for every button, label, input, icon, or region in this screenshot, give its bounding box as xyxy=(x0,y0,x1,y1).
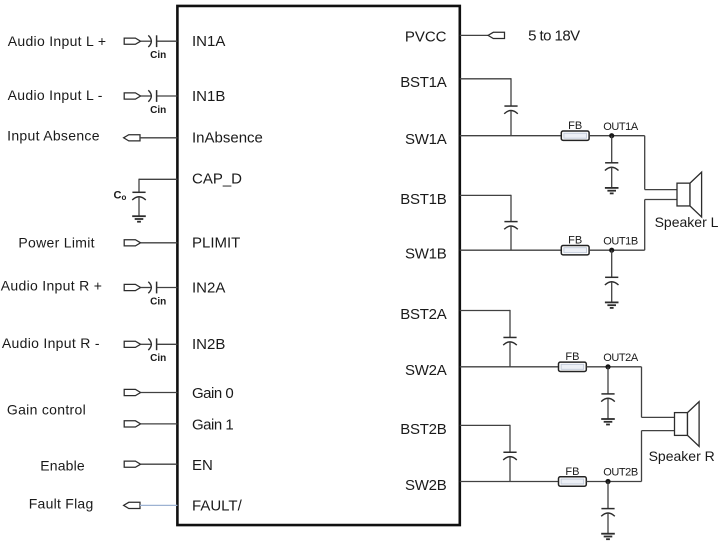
wire capacitor Cbst2A to SW2A xyxy=(509,342,511,367)
wire Co to ground xyxy=(138,198,140,217)
connector tag Gain 1 input xyxy=(124,421,140,427)
ground (Co) xyxy=(132,215,146,217)
svg-text:IN1B: IN1B xyxy=(192,88,225,105)
svg-text:OUT1A: OUT1A xyxy=(603,121,639,133)
svg-text:5 to 18V: 5 to 18V xyxy=(528,28,580,45)
wire OUT to speaker L + terminal xyxy=(645,189,677,191)
ground (OUT2B) xyxy=(601,533,615,535)
ferrite bead FB (2A) xyxy=(559,362,587,371)
wire capacitor to pin IN2B xyxy=(157,343,178,345)
wire OUT2B to capacitor xyxy=(607,482,609,509)
wire SW2B to ferrite bead xyxy=(460,481,559,483)
wire tag to capacitor CIN2B xyxy=(141,343,151,345)
wire speaker R return down to OUT2B xyxy=(641,431,643,482)
svg-text:Speaker L: Speaker L xyxy=(655,214,719,230)
wire capacitor Cbst1A to SW1A xyxy=(510,111,512,136)
speaker L LS1 xyxy=(677,183,690,206)
svg-text:Audio Input R -: Audio Input R - xyxy=(2,335,100,351)
capacitor Cin (IN2A coupling) xyxy=(148,282,151,294)
capacitor Cbst2B xyxy=(503,451,516,453)
svg-text:FB: FB xyxy=(568,235,582,247)
wire BST1B horizontal xyxy=(460,194,511,196)
svg-text:Fault Flag: Fault Flag xyxy=(29,496,94,512)
wire BST2A vertical to capacitor xyxy=(509,310,511,338)
wire capacitor to pin IN1B xyxy=(157,95,178,97)
svg-text:BST2A: BST2A xyxy=(400,306,447,323)
capacitor Cout1B xyxy=(605,276,618,278)
svg-text:OUT2B: OUT2B xyxy=(603,467,638,479)
connector tag Input Absence output xyxy=(124,135,140,141)
wire SW2A to ferrite bead xyxy=(460,366,559,368)
svg-text:Power Limit: Power Limit xyxy=(18,235,94,251)
svg-text:BST2B: BST2B xyxy=(400,421,447,438)
wire capacitor Cout1A to ground xyxy=(611,167,613,188)
wire CAP_D vertical drop xyxy=(138,179,140,193)
capacitor Cin (IN1B coupling) xyxy=(148,90,151,102)
wire capacitor to pin IN1A xyxy=(157,40,178,42)
wire speaker L - terminal xyxy=(645,199,677,201)
connector tag IN2B input xyxy=(124,341,140,347)
wire speaker L return down to OUT1B xyxy=(644,200,646,251)
svg-text:BST1B: BST1B xyxy=(400,191,447,208)
wire Fault Flag tag to pin (blue) xyxy=(140,504,177,506)
svg-text:Gain control: Gain control xyxy=(7,402,86,418)
wire BST2B vertical to capacitor xyxy=(509,425,511,452)
wire Power Limit tag to pin xyxy=(141,242,178,244)
capacitor Co xyxy=(132,191,145,193)
svg-text:PLIMIT: PLIMIT xyxy=(192,235,240,252)
wire Gain 1 tag to pin xyxy=(141,423,178,425)
svg-text:PVCC: PVCC xyxy=(405,28,447,45)
ferrite bead FB (2B) xyxy=(559,477,587,486)
svg-text:Gain 1: Gain 1 xyxy=(192,417,233,434)
wire SW1A to ferrite bead xyxy=(460,135,562,137)
node OUT1B junction xyxy=(609,248,614,253)
wire OUT1B to capacitor xyxy=(611,250,613,277)
capacitor Cout2B xyxy=(601,508,614,510)
wire OUT1A down to speaker L xyxy=(644,136,646,190)
svg-text:Gain 0: Gain 0 xyxy=(192,385,233,402)
capacitor Cbst1B xyxy=(504,221,517,223)
svg-text:InAbsence: InAbsence xyxy=(192,130,263,147)
svg-text:SW2A: SW2A xyxy=(405,362,447,379)
svg-text:Cin: Cin xyxy=(150,50,166,61)
ground (OUT1A) xyxy=(605,187,619,189)
svg-text:BST1A: BST1A xyxy=(400,74,447,91)
connector tag PVCC supply xyxy=(488,32,504,38)
ground (OUT1B) xyxy=(605,301,619,303)
svg-text:IN1A: IN1A xyxy=(192,33,225,50)
wire OUT2A to capacitor xyxy=(607,367,609,394)
wire BST1B vertical to capacitor xyxy=(510,195,512,222)
wire ferrite bead to OUT1A xyxy=(589,135,645,137)
capacitor Cout2A xyxy=(601,393,614,395)
node OUT2B junction xyxy=(605,479,610,484)
connector tag Enable input xyxy=(124,461,140,467)
wire BST1A horizontal xyxy=(460,78,511,80)
svg-text:Cin: Cin xyxy=(150,105,166,116)
capacitor Cin (IN2B coupling) xyxy=(148,339,151,351)
wire capacitor Cout1B to ground xyxy=(611,282,613,303)
svg-text:OUT1B: OUT1B xyxy=(603,235,638,247)
svg-text:FB: FB xyxy=(565,351,579,363)
svg-text:Audio Input L +: Audio Input L + xyxy=(8,33,107,49)
wire tag to capacitor CIN1B xyxy=(141,95,151,97)
node OUT2A junction xyxy=(605,364,610,369)
wire tag to capacitor CIN2A xyxy=(141,287,151,289)
svg-text:IN2B: IN2B xyxy=(192,336,225,353)
svg-text:SW2B: SW2B xyxy=(405,477,447,494)
wire OUT to speaker R + terminal xyxy=(642,416,675,418)
ferrite bead FB (1A) xyxy=(561,131,589,140)
wire tag to capacitor CIN1A xyxy=(141,40,151,42)
ferrite bead FB (1B) xyxy=(561,246,589,255)
connector tag IN1B input xyxy=(124,93,140,99)
wire Enable tag to pin xyxy=(141,463,178,465)
svg-text:SW1B: SW1B xyxy=(405,246,447,263)
wire ferrite bead to OUT2A xyxy=(586,366,641,368)
svg-text:Cin: Cin xyxy=(150,353,166,364)
capacitor Cbst2A xyxy=(503,336,516,338)
svg-text:CAP_D: CAP_D xyxy=(192,170,242,187)
svg-text:FB: FB xyxy=(568,120,582,132)
wire BST2A horizontal xyxy=(460,310,510,312)
wire capacitor Cout2B to ground xyxy=(607,513,609,534)
svg-text:Audio Input R +: Audio Input R + xyxy=(1,278,102,294)
wire ferrite bead to OUT1B xyxy=(589,249,645,251)
connector tag IN2A input xyxy=(124,284,140,290)
svg-text:Audio Input L -: Audio Input L - xyxy=(8,87,103,103)
wire capacitor Cbst1B to SW1B xyxy=(510,226,512,250)
wire BST1A vertical to capacitor xyxy=(510,78,512,106)
svg-text:FB: FB xyxy=(565,466,579,478)
wire speaker R - terminal xyxy=(642,430,675,432)
svg-text:Enable: Enable xyxy=(40,458,85,474)
wire pin CAP_D to capacitor Co xyxy=(139,178,177,180)
wire SW1B to ferrite bead xyxy=(460,249,562,251)
wire OUT2A down to speaker R xyxy=(641,367,643,418)
wire pin PVCC to supply tag xyxy=(460,34,488,36)
capacitor Cout1A xyxy=(605,162,618,164)
svg-text:IN2A: IN2A xyxy=(192,279,225,296)
speaker R LS2 xyxy=(675,413,688,436)
capacitor Cbst1A xyxy=(504,105,517,107)
wire Input Absence tag to pin xyxy=(140,137,177,139)
wire OUT1A to capacitor xyxy=(611,136,613,163)
wire capacitor Cout2A to ground xyxy=(607,399,609,420)
svg-text:Speaker R: Speaker R xyxy=(649,448,715,464)
ground (OUT2A) xyxy=(601,418,615,420)
svg-text:OUT2A: OUT2A xyxy=(603,352,639,364)
connector tag Fault Flag output xyxy=(124,502,140,508)
svg-text:EN: EN xyxy=(192,457,213,474)
svg-text:Cin: Cin xyxy=(150,296,166,307)
connector tag Gain 0 input xyxy=(124,389,140,395)
svg-text:FAULT/: FAULT/ xyxy=(192,497,243,514)
svg-text:SW1A: SW1A xyxy=(405,131,447,148)
wire ferrite bead to OUT2B xyxy=(586,481,641,483)
connector tag IN1A input xyxy=(124,38,140,44)
wire capacitor Cbst2B to SW2B xyxy=(509,457,511,482)
connector tag Power Limit input xyxy=(124,240,140,246)
wire Gain 0 tag to pin xyxy=(141,392,178,394)
svg-text:Input Absence: Input Absence xyxy=(7,128,100,144)
node OUT1A junction xyxy=(609,133,614,138)
capacitor Cin (IN1A coupling) xyxy=(148,35,151,47)
wire BST2B horizontal xyxy=(460,424,510,426)
op-amp U1 class-D amplifier IC body xyxy=(177,6,459,525)
wire capacitor to pin IN2A xyxy=(157,287,178,289)
